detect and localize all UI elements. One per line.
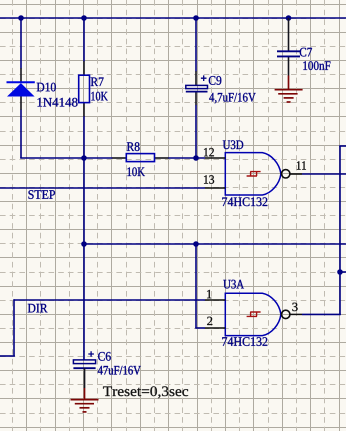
label C9 (209, 76, 222, 85)
label C7 (300, 48, 312, 57)
wire R7 branch vertical upper (83, 18, 85, 62)
op-amp gate U3D NAND body (225, 153, 281, 195)
label C7 value (303, 61, 330, 70)
capacitor C6 polarized (73, 351, 95, 368)
pin number 12 (204, 148, 214, 156)
wire right-side vertical bus (339, 146, 341, 315)
wire DIR stub to left edge (0, 355, 15, 357)
pin number 3 (292, 303, 297, 311)
wire R7 branch vertical lower down to C6 (83, 116, 85, 352)
pin number 1 (207, 290, 211, 298)
pin stub R7 bottom (83, 103, 85, 117)
wire C9 branch vertical upper (195, 18, 197, 72)
pin number 11 (297, 161, 306, 169)
wire elbow to R8 horizontal pin12 net (left) (20, 157, 112, 159)
node junction dot top rail / C9 branch (193, 15, 199, 21)
pin number 13 (204, 175, 214, 183)
pin 12 stub (205, 157, 225, 159)
node junction dot right bus y272 (337, 269, 343, 275)
label C6 (98, 352, 111, 361)
ground below C6 (71, 388, 99, 412)
wire C6 to ground (84, 368, 86, 388)
label R8 (127, 142, 140, 151)
net label STEP (29, 190, 56, 199)
label 74HC132 U3A (222, 337, 267, 346)
schmitt hysteresis glyph U3D (247, 172, 261, 176)
op-amp gate U3A NAND body (225, 293, 281, 335)
net label DIR (28, 304, 48, 313)
node junction dot top rail / R7 branch (81, 15, 87, 21)
node junction dot top rail / diode branch (18, 15, 24, 21)
node junction dot C9 branch pin12 net (193, 155, 199, 161)
wire right-side elbow to top right edge (339, 145, 346, 147)
wire C7 branch vertical lower (288, 56, 290, 75)
pin number 2 (207, 317, 212, 325)
wire diode branch vertical upper (20, 18, 22, 69)
pin stub C9 bottom (195, 92, 197, 106)
pin stub diode anode (20, 68, 22, 82)
wire DIR vertical elbow (13, 299, 15, 356)
wire C7 branch vertical upper (288, 18, 290, 51)
label C6 value (98, 366, 141, 375)
wire U3A output to right bus (302, 313, 341, 315)
resistor R7 (79, 75, 90, 102)
wire diode branch vertical lower (20, 110, 22, 158)
pin 3 stub (290, 313, 302, 315)
pin stub R8 right (155, 157, 169, 159)
pin stub R7 top (83, 61, 85, 75)
pin 2 stub (205, 327, 225, 329)
wire top horizontal rail (0, 17, 346, 19)
label 1N4148 (38, 98, 78, 107)
pin 1 stub (205, 299, 225, 301)
wire middle horizontal net (84, 243, 346, 245)
wire DIR horizontal pin1 net (14, 299, 205, 301)
wire right-side stub y272 (340, 271, 346, 273)
label R8 value 10K (127, 167, 144, 176)
resistor R8 (126, 154, 154, 162)
wire C9 branch vertical lower (195, 105, 197, 158)
wire R8 to gate pin12 (168, 157, 205, 159)
label D10 (37, 83, 56, 92)
node junction dot top rail / C7 branch (286, 15, 292, 21)
label R7 (91, 78, 104, 87)
capacitor C7 (277, 51, 300, 56)
label 74HC132 U3D (222, 197, 267, 206)
node junction dot R7 branch pin12 net (81, 155, 87, 161)
wire vertical mid net down to U3A pin2 (195, 244, 197, 328)
wire U3D output to right edge (302, 173, 346, 175)
diode D10 (7, 82, 35, 96)
pin stub C6 top (83, 352, 85, 360)
schmitt hysteresis glyph U3A (247, 312, 261, 316)
pin 13 stub (205, 187, 225, 189)
label U3D (223, 140, 243, 149)
annotation Treset (103, 386, 188, 398)
ground below C7 (275, 76, 303, 103)
label U3A (223, 280, 244, 289)
label C9 value (209, 93, 256, 104)
pin stub C9 top (195, 71, 197, 85)
pin stub diode cathode (20, 96, 22, 110)
node junction dot mid net x84 (81, 241, 87, 247)
node junction dot mid net x196 (193, 241, 199, 247)
label R7 value 10K (91, 92, 108, 101)
capacitor C9 polarized (186, 75, 208, 91)
pin 11 stub (290, 173, 302, 175)
pin stub R8 left (112, 157, 126, 159)
wire STEP horizontal pin13 net (0, 187, 205, 189)
wire horizontal into U3A pin2 (195, 327, 205, 329)
